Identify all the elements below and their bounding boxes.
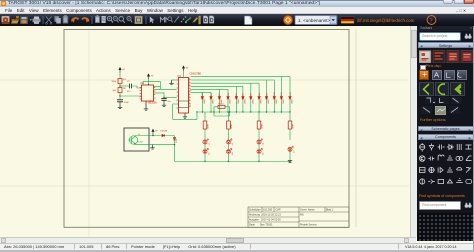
svg-text:1N4148: 1N4148 — [160, 131, 167, 133]
svg-text:1N41: 1N41 — [261, 99, 263, 104]
svg-text:CD4017BE: CD4017BE — [190, 74, 202, 76]
svg-text:1N41: 1N41 — [213, 99, 215, 104]
svg-text:CAP: CAP — [276, 209, 281, 212]
diode D1 — [201, 97, 203, 99]
major grid lines — [0, 26, 409, 237]
wire — [204, 129, 206, 140]
diode D6 — [242, 97, 244, 99]
resistor R6 — [288, 121, 292, 129]
diode D11 — [280, 97, 282, 99]
resistor R3 — [203, 121, 207, 129]
wire IC1 out pin3 — [154, 93, 165, 98]
LED L2 — [203, 148, 209, 154]
wire vcc to IC2 — [183, 71, 185, 78]
svg-text:11: 11 — [189, 105, 192, 107]
capacitor C3 10n — [161, 98, 166, 100]
diode D9 — [265, 97, 267, 99]
wire — [204, 144, 206, 149]
svg-text:D3: D3 — [219, 93, 221, 95]
wire column 2 stub — [228, 112, 230, 121]
svg-text:2: 2 — [189, 81, 191, 83]
svg-text:D5: D5 — [236, 93, 238, 95]
wire collector to right — [144, 135, 175, 137]
diode D7 — [250, 97, 252, 99]
svg-text:BC547: BC547 — [137, 142, 143, 144]
svg-text:D12: D12 — [290, 92, 292, 95]
svg-text:NE555N: NE555N — [148, 103, 157, 105]
op IC2 CD4017 counter — [179, 78, 189, 114]
svg-text:1N41: 1N41 — [238, 99, 240, 104]
wire to bottom bus — [204, 154, 206, 162]
diode D10 — [273, 97, 275, 99]
svg-text:TR-10: TR-10 — [218, 104, 223, 106]
wire R7 loop — [214, 107, 230, 116]
svg-text:1N41: 1N41 — [292, 99, 294, 104]
wire matrix output rows — [191, 77, 291, 93]
transistor box outline — [124, 128, 149, 151]
svg-text:1N41: 1N41 — [252, 99, 254, 104]
matrix junction nodes — [202, 111, 291, 112]
LED L3 — [226, 139, 232, 145]
node bottom — [228, 161, 229, 162]
ground under C3 — [163, 100, 165, 103]
svg-text:1N41: 1N41 — [276, 99, 278, 104]
wire bottom bus — [175, 161, 291, 163]
svg-text:L5: L5 — [262, 143, 264, 145]
svg-text:9V: 9V — [155, 131, 158, 133]
wire — [119, 73, 121, 79]
title bar — [0, 0, 474, 7]
ground under IC1 — [145, 101, 147, 107]
svg-text:4: 4 — [189, 84, 191, 86]
svg-text:470R: 470R — [262, 123, 264, 128]
resistor R4 — [227, 121, 231, 129]
LED L1 — [203, 139, 209, 145]
svg-text:1N41: 1N41 — [230, 99, 232, 104]
svg-text:1: 1 — [189, 93, 191, 95]
node vcc tap — [152, 135, 153, 136]
svg-text:7: 7 — [189, 87, 191, 89]
wire branch to C2 — [120, 85, 129, 87]
svg-text:D: D — [204, 18, 208, 24]
svg-text:R2: R2 — [123, 88, 127, 90]
ground mark at bus end — [288, 161, 292, 163]
svg-text:9V: 9V — [151, 76, 154, 78]
wire — [258, 129, 260, 140]
svg-text:5: 5 — [189, 96, 191, 98]
ground near IC2 — [169, 81, 173, 85]
svg-text:Datei Dice.T3001: Datei Dice.T3001 — [249, 224, 273, 227]
svg-text:L4: L4 — [232, 153, 234, 155]
svg-text:D10: D10 — [274, 92, 276, 95]
wire — [258, 144, 260, 149]
wire emitter to junction — [144, 144, 175, 146]
wire column 1 stub — [204, 112, 206, 121]
svg-text:D9: D9 — [266, 93, 268, 95]
svg-text:D1: D1 — [202, 93, 204, 95]
menu bar — [0, 7, 474, 14]
title block — [248, 207, 349, 227]
wire column 4 stub — [289, 112, 291, 121]
vertical scrollbar — [410, 26, 418, 237]
node bottom — [204, 161, 205, 162]
node bottom — [289, 161, 290, 162]
svg-text:D8: D8 — [259, 93, 261, 95]
diode D8 — [258, 97, 260, 99]
svg-text:10n: 10n — [167, 101, 171, 103]
svg-text:1N41: 1N41 — [283, 99, 285, 104]
diode D4 — [227, 97, 229, 99]
wire — [119, 93, 121, 100]
wire — [289, 129, 291, 140]
diode D2 — [210, 97, 212, 99]
svg-text:470R: 470R — [293, 123, 295, 128]
LED L6 — [257, 148, 263, 154]
svg-text:6: 6 — [189, 99, 191, 101]
wire resistor feed bus — [197, 111, 290, 113]
wire vertical drop to bus — [174, 136, 176, 162]
IC1 pin ticks — [140, 88, 156, 100]
svg-text:Projekt Service: Projekt Service — [300, 224, 317, 227]
svg-text:9V: 9V — [122, 69, 125, 71]
svg-text:L6: L6 — [262, 153, 264, 155]
status bar — [0, 243, 474, 250]
svg-text:10µF: 10µF — [124, 102, 130, 104]
svg-text:560k: 560k — [112, 81, 117, 83]
resistor R1 — [118, 79, 122, 84]
svg-text:Gezei. Name: Gezei. Name — [300, 209, 315, 212]
svg-text:L7: L7 — [293, 150, 295, 152]
node trigger tap — [119, 95, 120, 96]
svg-text:1N41: 1N41 — [204, 99, 206, 104]
node C3 tap — [163, 97, 164, 98]
diode D12 — [289, 97, 291, 99]
svg-text:L1: L1 — [208, 143, 210, 145]
svg-text:D16: D16 — [176, 139, 178, 142]
svg-text:C2: C2 — [127, 81, 131, 83]
window buttons — [443, 0, 453, 4]
svg-text:1N41: 1N41 — [268, 99, 270, 104]
svg-text:L2: L2 — [208, 153, 210, 155]
window right edge — [473, 26, 474, 250]
wire to IC2 — [164, 97, 177, 99]
wire — [228, 129, 230, 140]
svg-text:D7: D7 — [251, 93, 253, 95]
wire ground to IC2 — [172, 79, 177, 81]
diode D14 on collector wire — [162, 134, 164, 136]
svg-text:ibf.mit.siegel@ibfriedrich.com: ibf.mit.siegel@ibfriedrich.com — [357, 18, 415, 23]
wire — [119, 84, 121, 88]
svg-text:Änderung 2016-11-28 12:21: Änderung 2016-11-28 12:21 — [249, 214, 281, 217]
vcc symbol IC2 — [182, 66, 184, 71]
vcc symbol IC1 — [147, 74, 149, 79]
LED L4 — [226, 148, 232, 154]
svg-text:D6: D6 — [243, 93, 245, 95]
wire column 3 stub — [258, 112, 260, 121]
diode D5 — [235, 97, 237, 99]
svg-text:470R: 470R — [208, 123, 210, 128]
svg-text:D2: D2 — [211, 93, 213, 95]
wire to bottom bus — [258, 154, 260, 162]
wire collector inside box — [135, 136, 144, 145]
transistor Q1 — [128, 136, 138, 145]
IC2 internal divider block — [179, 101, 189, 108]
svg-text:D11: D11 — [281, 92, 283, 95]
svg-text:L3: L3 — [232, 143, 234, 145]
svg-text:101.005: 101.005 — [263, 209, 273, 212]
diode D3 — [218, 97, 220, 99]
node vcc at IC1 top — [148, 84, 149, 85]
svg-text:D4: D4 — [228, 93, 230, 95]
svg-text:56k: 56k — [113, 90, 117, 92]
wire — [228, 144, 230, 149]
op IC1 NE555 timer — [142, 85, 154, 101]
right panel — [417, 26, 474, 241]
wire to bottom bus — [228, 154, 230, 162]
diode D15 vertical — [173, 138, 175, 140]
node R7 taps — [213, 111, 214, 112]
node bottom — [258, 161, 259, 162]
ground — [119, 102, 121, 105]
IC2 pin ticks left — [177, 80, 179, 108]
svg-text:Blatt 1: Blatt 1 — [326, 209, 334, 212]
node reset loop to bus — [196, 111, 197, 112]
svg-text:D: D — [210, 18, 214, 24]
vcc symbol left chain — [119, 68, 121, 73]
LED L5 — [257, 139, 263, 145]
capacitor C1 10uF — [117, 100, 123, 102]
svg-text:Ausgabe 2017-01-04 00:20: Ausgabe 2017-01-04 00:20 — [249, 219, 281, 222]
resistor R5 — [257, 121, 261, 129]
wire feedback loop IC1 — [143, 82, 177, 90]
wire diode column verticals — [202, 77, 290, 112]
wire trigger — [120, 95, 142, 97]
svg-text:1. <unbenannt>: 1. <unbenannt> — [298, 18, 331, 23]
window bottom edge — [0, 250, 474, 252]
resistor R2 — [118, 88, 122, 93]
wire vcc to IC1 — [148, 79, 150, 85]
node emitter junction — [174, 144, 175, 145]
svg-text:1N41: 1N41 — [245, 99, 247, 104]
svg-text:10: 10 — [189, 90, 192, 92]
svg-text:9: 9 — [189, 102, 191, 104]
toolbar — [0, 14, 474, 26]
svg-text:NN: NN — [300, 214, 304, 217]
svg-text:47n: 47n — [127, 91, 131, 93]
node between R1 R2 — [119, 85, 120, 86]
ground under IC2 — [184, 113, 186, 115]
wire C2 to IC1 — [132, 86, 142, 88]
svg-text:Schaltplan: Schaltplan — [249, 209, 261, 212]
svg-text:9V: 9V — [186, 68, 189, 70]
title block text — [249, 209, 334, 227]
svg-text:?: ? — [430, 17, 433, 24]
ground tap on emitter — [152, 144, 154, 147]
wire IC2 reset loop — [173, 104, 197, 119]
IC2 pin ticks right with pin numbers — [189, 80, 191, 107]
svg-text:470R: 470R — [231, 123, 233, 128]
resistor R7 on bus — [218, 105, 225, 108]
canvas + schematic — [0, 26, 409, 237]
LED L7 — [288, 146, 294, 152]
capacitor C2 — [130, 84, 132, 89]
vcc symbol near box — [152, 129, 154, 135]
page margin line — [355, 30, 357, 228]
horizontal scrollbar — [0, 237, 416, 243]
wire to bottom bus — [289, 151, 291, 161]
schematic page frame — [64, 30, 349, 228]
